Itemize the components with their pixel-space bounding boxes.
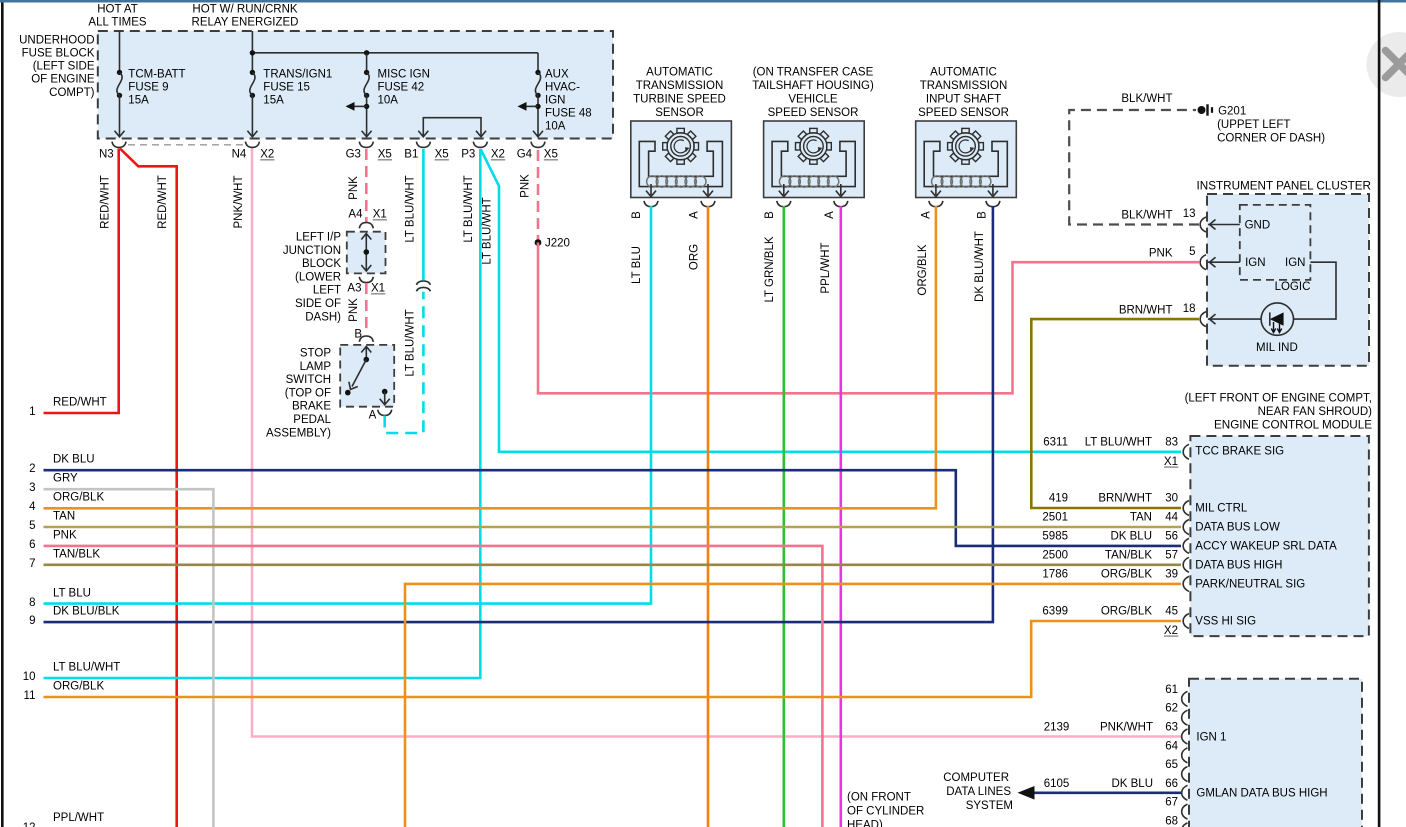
svg-text:TURBINE SPEED: TURBINE SPEED bbox=[633, 94, 726, 106]
instrument panel cluster box bbox=[1207, 194, 1369, 366]
wire PNK dashed G4 to J220 bbox=[537, 150, 540, 239]
svg-text:DATA BUS HIGH: DATA BUS HIGH bbox=[1195, 560, 1282, 572]
svg-text:10A: 10A bbox=[545, 121, 566, 133]
svg-text:TAN: TAN bbox=[53, 510, 75, 522]
svg-text:15A: 15A bbox=[128, 95, 149, 107]
svg-text:65: 65 bbox=[1165, 759, 1178, 771]
svg-text:5: 5 bbox=[1189, 246, 1195, 258]
svg-text:COMPT): COMPT) bbox=[49, 87, 95, 99]
svg-text:(LEFT FRONT OF ENGINE COMPT,: (LEFT FRONT OF ENGINE COMPT, bbox=[1185, 392, 1372, 404]
svg-text:AUTOMATIC: AUTOMATIC bbox=[646, 67, 713, 79]
wire 2 DK BLU to ECM pin 56 bbox=[44, 470, 1182, 546]
svg-text:OF CYLINDER: OF CYLINDER bbox=[847, 806, 924, 818]
svg-text:1786: 1786 bbox=[1042, 569, 1068, 581]
engine control module box X1/X2 bbox=[1190, 436, 1369, 636]
ECM2 pin 66 GMLAN DATA BUS HIGH bbox=[1182, 785, 1188, 800]
svg-text:X1: X1 bbox=[373, 209, 387, 221]
tap arrow left AUX HVAC bbox=[523, 105, 538, 107]
svg-text:(UPPET LEFT: (UPPET LEFT bbox=[1217, 119, 1290, 131]
svg-text:J220: J220 bbox=[545, 238, 570, 250]
connector G4 X5 bbox=[531, 142, 545, 148]
close button bbox=[1367, 32, 1406, 97]
wire ORG turbine A down bbox=[707, 206, 710, 827]
svg-text:GRY: GRY bbox=[53, 472, 78, 484]
svg-text:STOP: STOP bbox=[300, 348, 331, 360]
svg-text:68: 68 bbox=[1165, 815, 1178, 827]
ECM2 pin 64 bbox=[1182, 748, 1188, 763]
svg-text:COMPUTER: COMPUTER bbox=[943, 772, 1009, 784]
svg-text:LEFT: LEFT bbox=[313, 285, 341, 297]
wire PNK solid J220 to IPC pin 5 bbox=[538, 243, 1199, 394]
wire feed TCM-BATT fuse bbox=[119, 31, 121, 72]
IPC pin 18 bbox=[1200, 312, 1206, 327]
svg-text:BLK/WHT: BLK/WHT bbox=[1121, 210, 1172, 222]
IPC pin 13 bbox=[1200, 217, 1206, 232]
svg-text:INPUT SHAFT: INPUT SHAFT bbox=[926, 94, 1001, 106]
svg-text:5: 5 bbox=[29, 520, 35, 532]
sensor U3 automatic transmission input shaft speed sensor bbox=[916, 121, 1017, 207]
ground G201 bbox=[1198, 106, 1206, 114]
svg-text:PPL/WHT: PPL/WHT bbox=[53, 812, 104, 824]
svg-text:TRANS/IGN1: TRANS/IGN1 bbox=[263, 69, 332, 81]
svg-text:SENSOR: SENSOR bbox=[655, 107, 704, 119]
svg-text:TAILSHAFT HOUSING): TAILSHAFT HOUSING) bbox=[752, 80, 874, 92]
svg-text:LT BLU/WHT: LT BLU/WHT bbox=[482, 197, 494, 264]
wire BLK/WHT dashed IPC pin 13 to G201 bbox=[1069, 110, 1199, 225]
svg-text:IGN: IGN bbox=[1245, 257, 1265, 269]
wire RED/WHT circuit 1 from N3 bbox=[44, 149, 119, 414]
svg-text:A: A bbox=[369, 410, 377, 422]
svg-text:JUNCTION: JUNCTION bbox=[283, 245, 341, 257]
wire LT BLU/WHT from P3 to left wire 10 bbox=[44, 149, 481, 678]
svg-text:8: 8 bbox=[29, 597, 35, 609]
svg-text:TRANSMISSION: TRANSMISSION bbox=[636, 80, 724, 92]
wire 11 ORG/BLK to ECM pin 45 bbox=[44, 621, 1182, 697]
svg-text:DK BLU/WHT: DK BLU/WHT bbox=[974, 231, 986, 302]
svg-text:BRAKE: BRAKE bbox=[292, 401, 331, 413]
svg-text:83: 83 bbox=[1165, 437, 1178, 449]
svg-text:IGN 1: IGN 1 bbox=[1196, 731, 1226, 743]
svg-text:6311: 6311 bbox=[1043, 437, 1068, 449]
svg-text:UNDERHOOD: UNDERHOOD bbox=[19, 35, 94, 47]
svg-text:5985: 5985 bbox=[1042, 531, 1068, 543]
wire PNK/WHT from N4 to ECM pin 63 bbox=[252, 149, 1181, 737]
svg-text:FUSE 48: FUSE 48 bbox=[545, 108, 592, 120]
connector P3 X2 bbox=[473, 142, 487, 148]
svg-text:AUX: AUX bbox=[545, 69, 569, 81]
ECM2 pin 62 bbox=[1182, 710, 1188, 725]
sensor input shaft title bbox=[918, 67, 1009, 120]
wire LT GRN/BLK vss B down bbox=[782, 206, 785, 827]
page top border bbox=[0, 0, 1406, 3]
ECM pin 56 ACCY WAKEUP SRL DATA bbox=[1183, 538, 1189, 553]
stop lamp switch box bbox=[340, 345, 394, 407]
svg-text:LAMP: LAMP bbox=[300, 361, 332, 373]
label UNDERHOOD FUSE BLOCK (LEFT SIDE OF ENGINE COMPT) bbox=[19, 35, 95, 100]
svg-text:TRANSMISSION: TRANSMISSION bbox=[920, 80, 1008, 92]
connector A3 X1 bbox=[359, 277, 373, 283]
wire BRN/WHT IPC pin 18 to ECM pin 30 bbox=[1031, 319, 1199, 508]
svg-text:PPL/WHT: PPL/WHT bbox=[820, 242, 832, 293]
svg-text:CORNER OF DASH): CORNER OF DASH) bbox=[1217, 133, 1325, 145]
svg-text:RED/WHT: RED/WHT bbox=[100, 175, 112, 229]
sensor turbine speed title bbox=[633, 67, 726, 120]
svg-text:3: 3 bbox=[29, 482, 35, 494]
splice J220 bbox=[535, 239, 542, 246]
svg-text:B: B bbox=[764, 211, 776, 219]
svg-text:61: 61 bbox=[1165, 684, 1178, 696]
svg-text:62: 62 bbox=[1165, 703, 1178, 715]
svg-text:RED/WHT: RED/WHT bbox=[157, 175, 169, 229]
svg-text:X5: X5 bbox=[378, 149, 392, 161]
svg-text:PARK/NEUTRAL SIG: PARK/NEUTRAL SIG bbox=[1195, 579, 1305, 591]
svg-text:PNK: PNK bbox=[53, 529, 77, 541]
svg-text:LT BLU/WHT: LT BLU/WHT bbox=[405, 175, 417, 242]
wire LT BLU/WHT from P3 branch to ECM pin 83 bbox=[481, 150, 1181, 452]
wire ORG/BLK 1786 to ECM pin 39 bbox=[405, 584, 1181, 827]
svg-text:TAN: TAN bbox=[1130, 512, 1152, 524]
logic inner box bbox=[1240, 205, 1311, 280]
svg-text:OF ENGINE: OF ENGINE bbox=[31, 74, 95, 86]
ECM pin 57 DATA BUS HIGH bbox=[1183, 557, 1189, 572]
page right border bbox=[1378, 0, 1381, 827]
svg-text:DK BLU/BLK: DK BLU/BLK bbox=[53, 605, 120, 617]
svg-text:PNK: PNK bbox=[348, 176, 360, 200]
sensor vehicle speed title bbox=[752, 67, 874, 120]
svg-text:ORG/BLK: ORG/BLK bbox=[1101, 606, 1152, 618]
svg-text:NEAR FAN SHROUD): NEAR FAN SHROUD) bbox=[1258, 406, 1373, 418]
svg-text:B: B bbox=[631, 211, 643, 219]
connector A4 X1 bbox=[359, 223, 373, 229]
svg-text:B1: B1 bbox=[404, 149, 418, 161]
svg-text:ORG/BLK: ORG/BLK bbox=[1101, 569, 1152, 581]
junction block internal wire bbox=[365, 234, 367, 271]
svg-text:LT GRN/BLK: LT GRN/BLK bbox=[764, 236, 776, 302]
sensor U2 vehicle speed sensor bbox=[764, 121, 865, 207]
svg-text:MIL CTRL: MIL CTRL bbox=[1195, 503, 1248, 515]
svg-text:FUSE BLOCK: FUSE BLOCK bbox=[22, 48, 95, 60]
tap arrow left MISC IGN bbox=[351, 105, 367, 107]
svg-text:LOGIC: LOGIC bbox=[1275, 281, 1311, 293]
GND lead with arrow bbox=[1208, 224, 1240, 226]
bus bar HOT W/ RUN/CRNK bbox=[252, 52, 538, 54]
svg-text:SPEED SENSOR: SPEED SENSOR bbox=[768, 107, 859, 119]
svg-text:SIDE OF: SIDE OF bbox=[295, 298, 341, 310]
svg-text:45: 45 bbox=[1165, 606, 1178, 618]
svg-text:56: 56 bbox=[1165, 531, 1178, 543]
svg-text:63: 63 bbox=[1165, 722, 1178, 734]
svg-text:G4: G4 bbox=[517, 149, 533, 161]
underhood fuse block box bbox=[98, 31, 613, 139]
svg-text:ORG/BLK: ORG/BLK bbox=[53, 491, 104, 503]
svg-text:DK BLU: DK BLU bbox=[1110, 531, 1152, 543]
ECM pin 39 PARK/NEUTRAL SIG bbox=[1183, 576, 1189, 591]
svg-text:X2: X2 bbox=[491, 149, 505, 161]
svg-text:MISC IGN: MISC IGN bbox=[378, 69, 430, 81]
svg-text:RELAY ENERGIZED: RELAY ENERGIZED bbox=[192, 16, 299, 28]
svg-text:DATA LINES: DATA LINES bbox=[946, 786, 1011, 798]
IGN lead with arrow bbox=[1208, 261, 1240, 263]
engine control module box 2 bbox=[1189, 679, 1362, 827]
svg-text:LT BLU/WHT: LT BLU/WHT bbox=[1085, 437, 1152, 449]
wire PPL/WHT vss A down bbox=[839, 206, 842, 827]
svg-text:IGN: IGN bbox=[545, 95, 565, 107]
ECM pin 83 TCC BRAKE SIG bbox=[1183, 444, 1189, 459]
svg-text:TCC BRAKE SIG: TCC BRAKE SIG bbox=[1195, 446, 1284, 458]
svg-text:67: 67 bbox=[1165, 797, 1178, 809]
page left border bbox=[1, 0, 4, 827]
svg-text:LEFT I/P: LEFT I/P bbox=[296, 232, 341, 244]
svg-text:N4: N4 bbox=[232, 149, 247, 161]
svg-text:RED/WHT: RED/WHT bbox=[53, 396, 107, 408]
svg-text:A3: A3 bbox=[347, 283, 361, 295]
svg-text:DATA BUS LOW: DATA BUS LOW bbox=[1195, 522, 1280, 534]
ECM2 pin 63 IGN 1 bbox=[1182, 729, 1188, 744]
svg-text:IGN: IGN bbox=[1285, 257, 1305, 269]
IPC pin 5 bbox=[1200, 255, 1206, 270]
svg-text:X2: X2 bbox=[260, 149, 274, 161]
ECM2 pin 61 bbox=[1182, 691, 1188, 706]
svg-text:1: 1 bbox=[29, 406, 35, 418]
connector N4 X2 bbox=[245, 142, 259, 148]
svg-text:HVAC-: HVAC- bbox=[545, 82, 580, 94]
svg-text:PNK: PNK bbox=[520, 174, 532, 198]
svg-text:PNK: PNK bbox=[1149, 247, 1173, 259]
svg-text:10A: 10A bbox=[378, 95, 399, 107]
svg-text:PNK/WHT: PNK/WHT bbox=[1100, 722, 1153, 734]
svg-text:(TOP OF: (TOP OF bbox=[285, 387, 331, 399]
svg-text:39: 39 bbox=[1165, 569, 1178, 581]
svg-text:LT BLU: LT BLU bbox=[631, 246, 643, 284]
svg-text:A4: A4 bbox=[348, 209, 363, 221]
svg-text:ALL TIMES: ALL TIMES bbox=[88, 16, 146, 28]
fuse F42 MISC IGN bbox=[366, 53, 368, 73]
wire 6 PNK down at 822 bbox=[44, 546, 823, 827]
svg-text:30: 30 bbox=[1165, 493, 1178, 505]
svg-text:B: B bbox=[976, 211, 988, 219]
svg-text:4: 4 bbox=[29, 501, 36, 513]
bracket jumper B1-P3 bbox=[423, 118, 481, 136]
svg-text:GND: GND bbox=[1245, 219, 1271, 231]
svg-text:G3: G3 bbox=[346, 149, 361, 161]
svg-text:LT BLU/WHT: LT BLU/WHT bbox=[463, 175, 475, 242]
svg-text:64: 64 bbox=[1165, 740, 1178, 752]
svg-text:57: 57 bbox=[1165, 550, 1178, 562]
svg-text:44: 44 bbox=[1165, 512, 1178, 524]
wire PNK dashed G3 to A4 bbox=[365, 149, 368, 223]
svg-text:2501: 2501 bbox=[1042, 512, 1068, 524]
svg-text:7: 7 bbox=[29, 558, 35, 570]
svg-text:A: A bbox=[824, 211, 836, 219]
svg-text:2: 2 bbox=[29, 463, 35, 475]
svg-text:FUSE 15: FUSE 15 bbox=[263, 82, 310, 94]
svg-text:P3: P3 bbox=[461, 149, 475, 161]
connector dashed link N3-N4 bbox=[128, 144, 243, 146]
wire PNK dashed A3 to stop lamp switch B bbox=[365, 283, 368, 334]
ECM pin 30 MIL CTRL bbox=[1183, 501, 1189, 516]
wire RED/WHT circuit 2 from N3 diagonal bbox=[120, 149, 177, 827]
label LEFT I/P JUNCTION BLOCK (LOWER LEFT SIDE OF DASH) bbox=[283, 232, 341, 324]
connector G3 X5 bbox=[359, 142, 373, 148]
fuse F15 TRANS/IGN1 bbox=[250, 70, 255, 98]
sensor U1 automatic transmission turbine speed sensor bbox=[631, 121, 732, 207]
svg-text:N3: N3 bbox=[99, 149, 114, 161]
wire 5 TAN to ECM pin 44 bbox=[44, 526, 1182, 529]
svg-text:PNK: PNK bbox=[348, 298, 360, 322]
inline connector break on LT BLU/WHT bbox=[416, 281, 430, 291]
svg-text:9: 9 bbox=[29, 615, 35, 627]
svg-text:BRN/WHT: BRN/WHT bbox=[1119, 304, 1173, 316]
svg-text:X2: X2 bbox=[1164, 625, 1178, 637]
svg-text:DASH): DASH) bbox=[305, 311, 341, 323]
fuse F9 TCM-BATT bbox=[117, 70, 122, 98]
svg-text:A: A bbox=[689, 211, 701, 219]
svg-text:GMLAN DATA BUS HIGH: GMLAN DATA BUS HIGH bbox=[1196, 788, 1327, 800]
junction dot MISC IGN tap bbox=[364, 104, 369, 109]
wire LT BLU/WHT solid B1 down to break bbox=[422, 149, 425, 281]
svg-text:INSTRUMENT PANEL CLUSTER: INSTRUMENT PANEL CLUSTER bbox=[1197, 180, 1371, 193]
label HOT AT ALL TIMES bbox=[88, 3, 146, 28]
ECM2 pin 68 bbox=[1182, 823, 1188, 827]
svg-text:6105: 6105 bbox=[1044, 778, 1070, 790]
svg-text:ACCY WAKEUP SRL DATA: ACCY WAKEUP SRL DATA bbox=[1195, 541, 1337, 553]
svg-text:VEHICLE: VEHICLE bbox=[788, 94, 838, 106]
svg-text:66: 66 bbox=[1165, 778, 1178, 790]
label COMPUTER DATA LINES SYSTEM bbox=[943, 772, 1013, 812]
svg-text:2139: 2139 bbox=[1044, 722, 1070, 734]
label STOP LAMP SWITCH (TOP OF BRAKE PEDAL ASSEMBLY) bbox=[266, 348, 332, 440]
svg-text:SWITCH: SWITCH bbox=[286, 374, 331, 386]
svg-text:G201: G201 bbox=[1218, 105, 1246, 117]
MIL indicator LED circuit bbox=[1294, 262, 1337, 319]
svg-text:TAN/BLK: TAN/BLK bbox=[1105, 550, 1152, 562]
svg-text:LT BLU/WHT: LT BLU/WHT bbox=[405, 309, 417, 376]
svg-text:BRN/WHT: BRN/WHT bbox=[1098, 493, 1152, 505]
junction dot bus at fuse 42 bbox=[364, 50, 369, 55]
connector N3 bbox=[112, 142, 126, 148]
svg-text:MIL IND: MIL IND bbox=[1256, 342, 1298, 354]
svg-text:(LEFT SIDE: (LEFT SIDE bbox=[33, 61, 95, 73]
junction block box bbox=[347, 232, 386, 274]
label HOT W/ RUN/CRNK RELAY ENERGIZED bbox=[192, 3, 299, 28]
svg-text:13: 13 bbox=[1183, 208, 1196, 220]
svg-text:PEDAL: PEDAL bbox=[293, 414, 331, 426]
svg-text:HOT AT: HOT AT bbox=[97, 3, 137, 15]
svg-text:BLOCK: BLOCK bbox=[302, 258, 341, 270]
svg-text:FUSE 42: FUSE 42 bbox=[378, 82, 425, 94]
svg-text:6399: 6399 bbox=[1042, 606, 1068, 618]
wire DK BLU/WHT input shaft B to left wire 9 bbox=[44, 206, 993, 622]
svg-text:(ON FRONT: (ON FRONT bbox=[847, 792, 911, 804]
ECM2 pin 65 bbox=[1182, 767, 1188, 782]
svg-text:ASSEMBLY): ASSEMBLY) bbox=[266, 427, 331, 439]
svg-text:ORG/BLK: ORG/BLK bbox=[917, 244, 929, 295]
svg-text:DK BLU: DK BLU bbox=[53, 453, 95, 465]
ECM pin 45 VSS HI SIG bbox=[1183, 614, 1189, 629]
ECM pin 44 DATA BUS LOW bbox=[1183, 520, 1189, 535]
svg-text:18: 18 bbox=[1183, 303, 1196, 315]
svg-text:HOT W/ RUN/CRNK: HOT W/ RUN/CRNK bbox=[192, 3, 298, 15]
svg-text:LT BLU: LT BLU bbox=[53, 587, 91, 599]
svg-text:X1: X1 bbox=[1164, 456, 1178, 468]
svg-text:TAN/BLK: TAN/BLK bbox=[53, 548, 100, 560]
svg-text:HEAD): HEAD) bbox=[847, 820, 883, 827]
connector B1 X5 bbox=[416, 142, 430, 148]
svg-text:2500: 2500 bbox=[1042, 550, 1068, 562]
fuse F48 AUX HVAC-IGN bbox=[537, 53, 539, 73]
wire feed TRANS/IGN1 fuse bbox=[251, 31, 253, 72]
wire LT BLU/WHT dashed from switch A up to break bbox=[385, 292, 424, 433]
stop lamp switch internals bbox=[365, 346, 367, 359]
svg-text:SPEED SENSOR: SPEED SENSOR bbox=[918, 107, 1009, 119]
connector A stop lamp switch bbox=[378, 410, 392, 416]
ECM2 pin 67 bbox=[1182, 804, 1188, 819]
wire 7 TAN/BLK to ECM pin 57 bbox=[44, 563, 1182, 566]
svg-text:11: 11 bbox=[24, 690, 36, 702]
svg-text:6: 6 bbox=[29, 539, 35, 551]
wire ORG/BLK input shaft A to left wire 4 bbox=[44, 206, 936, 508]
svg-text:A: A bbox=[920, 211, 932, 219]
svg-text:X5: X5 bbox=[435, 149, 449, 161]
svg-text:15A: 15A bbox=[263, 95, 284, 107]
svg-text:ENGINE CONTROL MODULE: ENGINE CONTROL MODULE bbox=[1214, 419, 1372, 432]
svg-text:PNK/WHT: PNK/WHT bbox=[233, 175, 245, 228]
junction dot AUX tap bbox=[535, 104, 540, 109]
wire DK BLU 6105 to computer data lines bbox=[1022, 791, 1181, 794]
junction dot bus at fuse 15 bbox=[250, 50, 255, 55]
svg-text:X5: X5 bbox=[544, 149, 558, 161]
svg-text:(LOWER: (LOWER bbox=[295, 271, 341, 283]
wire 3 GRY down at 213 bbox=[44, 489, 214, 827]
svg-text:LT BLU/WHT: LT BLU/WHT bbox=[53, 661, 120, 673]
svg-text:X1: X1 bbox=[371, 283, 385, 295]
svg-text:ORG/BLK: ORG/BLK bbox=[53, 680, 104, 692]
wire LT BLU turbine B to left wire 8 bbox=[44, 206, 652, 604]
svg-text:TCM-BATT: TCM-BATT bbox=[128, 69, 185, 81]
svg-text:VSS HI SIG: VSS HI SIG bbox=[1195, 616, 1256, 628]
svg-text:DK BLU: DK BLU bbox=[1111, 778, 1153, 790]
svg-text:AUTOMATIC: AUTOMATIC bbox=[930, 67, 997, 79]
svg-text:419: 419 bbox=[1049, 493, 1068, 505]
svg-text:(ON TRANSFER CASE: (ON TRANSFER CASE bbox=[753, 67, 874, 79]
svg-text:SYSTEM: SYSTEM bbox=[966, 800, 1013, 812]
svg-text:12: 12 bbox=[23, 822, 36, 827]
svg-text:FUSE 9: FUSE 9 bbox=[128, 82, 168, 94]
svg-text:10: 10 bbox=[23, 671, 36, 683]
svg-text:ORG: ORG bbox=[689, 244, 701, 270]
svg-text:BLK/WHT: BLK/WHT bbox=[1121, 93, 1172, 105]
